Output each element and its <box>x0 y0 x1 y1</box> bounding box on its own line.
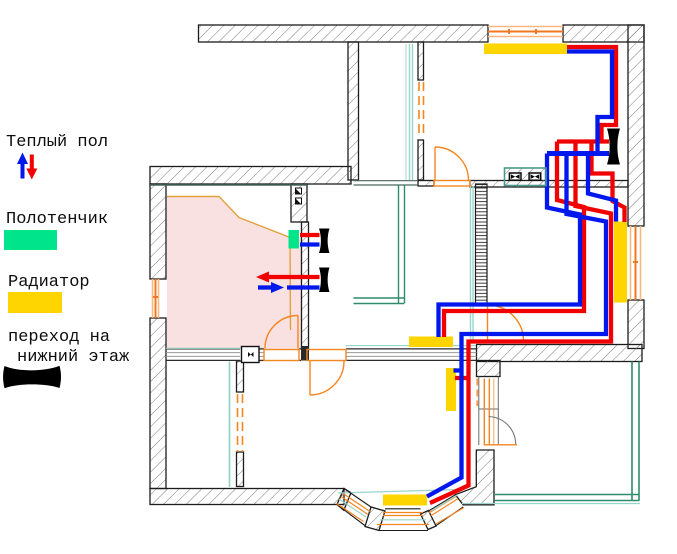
svg-text:переход на: переход на <box>8 328 110 347</box>
svg-text:Теплый пол: Теплый пол <box>6 133 108 152</box>
svg-text:нижний этаж: нижний этаж <box>17 348 130 367</box>
svg-text:Радиатор: Радиатор <box>8 273 90 292</box>
svg-text:Полотенчик: Полотенчик <box>6 210 108 229</box>
